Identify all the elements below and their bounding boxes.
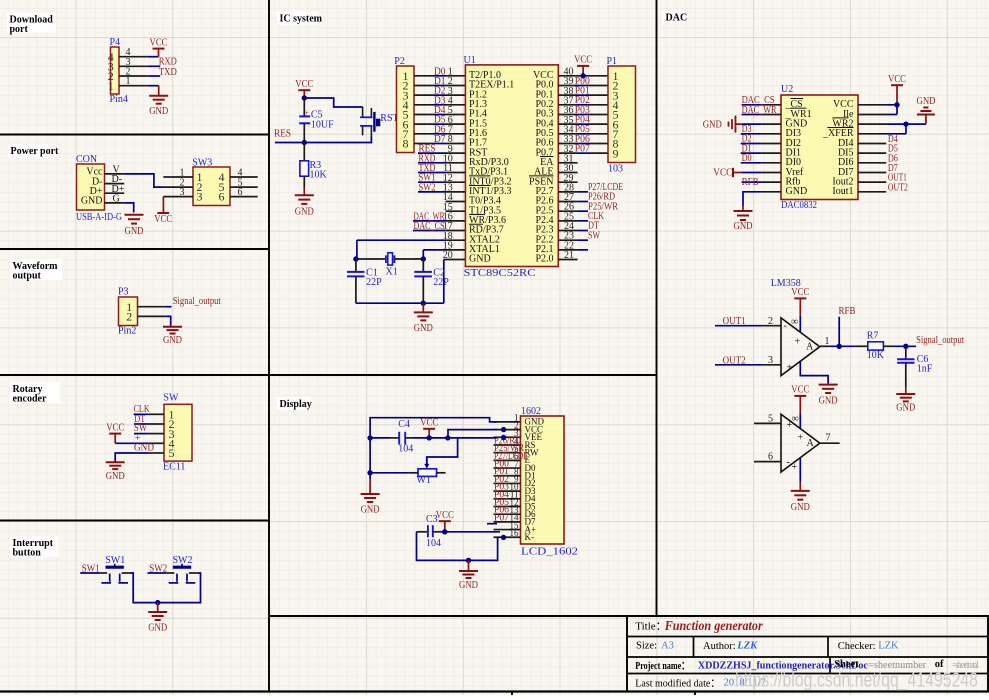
junction pin40 VCC [580,73,585,78]
P4 pin 3 [119,65,148,67]
wire XTAL1 row19 [423,249,445,251]
resistor R3 [303,143,305,161]
svg-text:GND: GND [819,396,838,407]
op-amp U3A [781,318,820,376]
ground download [158,86,160,96]
svg-text:C4: C4 [398,419,410,430]
SW pin 1 CLK [149,413,164,415]
wire lcd pin2 VCC [448,430,497,438]
svg-text:RFB: RFB [839,306,856,317]
junction rail W1 [367,470,372,475]
SW pin 3 SWnet [149,433,164,435]
opamp1 pin2 [762,325,781,327]
connector P1 body [608,66,636,163]
svg-text:GND: GND [163,335,182,346]
ground U2 right (inverted) [925,115,927,125]
svg-text:EC11: EC11 [163,462,185,473]
button SW1 [106,566,124,569]
capacitor C5 [303,98,305,116]
svg-text:GND: GND [361,505,380,516]
svg-text:A: A [806,341,814,352]
mcu U1 body [465,65,558,267]
svg-text:DAC0832: DAC0832 [781,200,817,211]
border tick marks [511,692,513,696]
svg-text:Last modified date：: Last modified date： [635,677,720,689]
svg-text:+: + [787,420,793,431]
svg-text:P07: P07 [494,512,509,523]
svg-text:104: 104 [398,444,413,455]
ground rotary [106,461,125,463]
crystal X1 [385,255,387,263]
svg-text:GND: GND [791,502,810,513]
svg-text:GND: GND [734,221,753,232]
crystal X1 rail [356,258,386,260]
svg-text:SW2: SW2 [419,182,436,193]
section label Power port [8,144,56,158]
section label Display [277,397,310,410]
U1 rows 16,17 DAC wires [413,220,446,222]
svg-text:16: 16 [510,528,520,538]
svg-text:USB-A-ID-G: USB-A-ID-G [76,212,122,223]
ground U2 bottom [742,206,744,211]
svg-text:G: G [113,194,120,205]
wire XTAL2 row18 [357,239,446,241]
U2 pins DI4-DI7 [858,142,886,144]
wire left rail lower [369,438,371,479]
svg-text:X1: X1 [386,267,398,278]
U2 VCC right [858,104,887,106]
connector P2 body [397,66,415,153]
potentiometer W1 [418,469,437,477]
svg-text:TXD: TXD [159,67,177,78]
connector P3 body [119,297,138,326]
op-amp U3B [781,414,820,472]
wire C4 to VEE [414,437,497,439]
junction X1 right [421,256,426,261]
svg-text:Signal_output: Signal_output [173,296,221,307]
wire SW3.3 to VCC below [162,197,164,213]
title block frame [627,616,988,692]
power VCC display [423,428,435,430]
svg-text:VCC: VCC [791,287,809,298]
P3 pin 1 [138,306,166,308]
svg-text:P3: P3 [118,287,129,298]
junction U2 VCC [894,102,899,107]
svg-text:VCC: VCC [154,214,172,225]
U2 pin WR1 wire [742,113,762,115]
svg-text:2: 2 [768,316,773,327]
svg-text:Pin2: Pin2 [118,326,136,337]
junction X1 left [353,256,358,261]
wire SW1 to gnd rail [130,573,158,603]
wire pin20 gnd drop [443,260,445,304]
svg-text:VCC: VCC [106,422,124,433]
junction VCC display [427,435,432,440]
wire pin5 to ground [115,453,148,462]
svg-text:VCC: VCC [436,510,454,521]
svg-text:DAC: DAC [666,13,688,24]
U1 pin 20 GND [444,259,446,261]
SW3 pin 3 [163,196,193,198]
wire P4.4 to VCC [148,56,159,58]
U1 pins 28-23 labelled stubs [558,191,577,193]
SW1 left pin [99,572,107,574]
ground crystal [422,303,424,312]
encoder SW body [164,404,192,461]
section label Waveform output [10,259,62,280]
wire SW stub [134,433,149,435]
wire crystal gnd rail [356,302,444,304]
wire CON.G to ground [124,203,134,213]
svg-text:1: 1 [825,336,830,347]
svg-text:1nF: 1nF [917,363,933,374]
svg-text:SW: SW [163,393,179,404]
svg-text:VCC: VCC [791,385,809,396]
svg-text:U2: U2 [781,84,793,95]
divider power/waveform [0,248,269,250]
svg-text:1602: 1602 [521,406,541,417]
wire RST bottom to RES row [304,135,371,142]
svg-text:10K: 10K [310,169,328,180]
power VCC U1 top [577,65,589,67]
switch SW3 body [193,167,230,206]
capacitor C6 [905,346,907,359]
svg-text:K-: K- [525,532,535,542]
wire C4 row [370,437,390,439]
U1 pins 31,30,29 stubs [558,162,577,164]
wire P3.2 to ground [166,316,171,326]
junction gnd rail [421,301,426,306]
ground display left [369,479,371,494]
opamp2 pin5 [754,422,781,424]
power VCC opamp1 [794,297,806,299]
U2 pin Iout1 [858,191,886,193]
wire output to R7 [829,345,855,347]
svg-text:Display: Display [280,399,312,410]
wire CLK stub [134,413,149,415]
svg-text:5: 5 [169,446,175,460]
svg-text:1: 1 [126,76,131,87]
U1 pin 21 stub [558,259,577,261]
wire SW2 to gnd rail [158,573,201,603]
power VCC power-port (downward) [157,212,169,214]
power VCC opamp2 [794,395,806,397]
svg-text:Function generator: Function generator [664,618,764,633]
SW1 right pin [122,572,130,574]
opamp1 gnd wire [800,361,828,383]
svg-text:GND: GND [149,106,168,117]
svg-text:3: 3 [768,355,773,366]
svg-text:VCC: VCC [888,74,906,85]
svg-text:encoder: encoder [13,394,47,405]
junction lcd pin2 [501,427,506,432]
svg-text:+: + [798,432,804,443]
svg-text:A: A [807,438,815,449]
ground opamp2 [791,490,810,492]
button SW2 [173,566,191,569]
svg-text:∞: ∞ [792,413,799,424]
svg-text:https://blog.csdn.net/qq_41495: https://blog.csdn.net/qq_41495248 [735,669,978,691]
svg-text:W1: W1 [417,475,431,486]
junction C3 VCC [442,529,447,534]
junction backlight gnd [466,558,471,563]
opamp1 pin3 [762,364,781,366]
svg-text:GND: GND [295,206,314,217]
junction WR2/XFER [903,121,908,126]
capacitor C3 [417,531,428,533]
wire CON.V to SW3.2 [124,174,163,187]
svg-text:Power port: Power port [11,146,60,157]
svg-text:-: - [787,457,790,468]
svg-text:∞: ∞ [791,317,798,328]
connector CON body [77,164,105,210]
wire R3 to ground [303,176,305,187]
svg-text:SW: SW [588,230,600,241]
SW2 right pin [189,572,197,574]
opamp2 output pin7 [820,442,840,444]
svg-text:port: port [10,24,29,35]
wire C3 left drop [417,532,498,561]
svg-text:6: 6 [219,190,225,204]
wire SW2 left [148,572,167,574]
divider waveform/rotary and ic/display [0,374,657,376]
svg-text:21: 21 [564,250,574,261]
U2 right overlines [832,117,848,119]
svg-text:22P: 22P [366,277,382,288]
SW3 pin 4 [230,176,258,178]
SW2 left pin [166,572,174,574]
U2 WR2 to gnd [858,123,887,125]
section divider vertical left [268,0,270,692]
svg-text:A3: A3 [661,640,674,651]
connector P4 body [111,47,120,94]
svg-text:10K: 10K [867,350,885,361]
wire U1 pin40 to P1 pin1 [558,75,608,77]
section label Rotary encoder [10,382,60,403]
svg-text:VCC: VCC [295,79,313,90]
wire left rail top [370,418,497,438]
svg-text:104: 104 [426,538,441,549]
section label IC system [277,12,318,25]
ground reset [295,194,314,196]
svg-text:Checker:: Checker: [838,641,876,652]
svg-text:1: 1 [108,79,114,93]
svg-text:GND: GND [106,471,125,482]
wire VCC to pin4 [115,442,148,444]
wiper arrow [424,464,429,469]
junction interrupt gnd [155,600,160,605]
U1 left overlines [469,175,491,177]
SW3 pin 5 [230,186,258,188]
svg-text:GND: GND [917,96,936,107]
svg-text:D0: D0 [742,153,752,164]
wire P3.1 Signal_output stub [166,306,172,308]
svg-text:P07: P07 [575,144,590,155]
lcd pin lines and numbers [494,421,521,423]
P2-U1 data wires D0-D7 [414,75,434,77]
wire DT stub [134,423,149,425]
svg-text:P2.0: P2.0 [535,254,553,265]
section divider vertical right [656,0,658,616]
junction signal output [903,344,908,349]
CON pin D- [105,183,125,185]
svg-text:GND: GND [134,443,154,454]
svg-text:3: 3 [197,190,203,204]
svg-text:GND: GND [703,120,722,131]
svg-text:DAC_CS: DAC_CS [414,221,445,232]
svg-text:Iout1: Iout1 [832,186,853,197]
junction VCC/C5 [302,95,307,100]
U1 rows 9-13 wires [418,152,446,154]
svg-text:GND: GND [786,186,808,197]
divider rotary/interrupt [0,520,269,522]
svg-text:-: - [784,321,787,332]
svg-text:6: 6 [768,452,773,463]
svg-text:LCD_1602: LCD_1602 [521,546,578,557]
ground waveform [163,326,182,328]
svg-text:Author:: Author: [703,641,736,652]
power VCC reset [298,89,310,91]
ground opamp1 [819,384,838,386]
svg-text:5: 5 [768,414,773,425]
svg-text:RFB: RFB [742,177,759,188]
SW3 pin 2 [163,186,193,188]
junction RES/R3 [302,140,307,145]
opamp2 gnd wire [799,458,801,482]
wire rail to W1 [370,472,408,474]
svg-text:+: + [787,362,793,373]
wire SW1 left [80,572,99,574]
ground interrupt [157,603,159,612]
capacitor C4 [390,437,399,439]
svg-text:+: + [304,108,309,117]
svg-text:7: 7 [826,433,831,444]
junction rail C4 [367,435,372,440]
svg-text:8: 8 [403,137,409,151]
U2 pin Iout2 [858,181,886,183]
U2 data pins DI3-DI0 [741,133,762,135]
wire R7 to output node [883,345,894,347]
wire RES row [275,142,304,144]
svg-text:103: 103 [608,163,623,174]
svg-text:LZK: LZK [736,641,758,652]
svg-text:RES: RES [274,128,291,139]
svg-text:VCC: VCC [574,55,592,66]
svg-text:GND: GND [125,226,144,237]
svg-text:STC89C52RC: STC89C52RC [464,268,536,279]
wire VCC to RST button [304,98,362,107]
svg-text:OUT2: OUT2 [888,182,908,193]
U2 left overlines [791,98,804,100]
P4 pin 4 [119,56,148,58]
U2 pin Rfb wire [742,181,762,183]
U2 pin CS wire [742,104,762,106]
U1-P1 port wires P00-P07 [558,84,576,86]
SW pin 5 GND [149,452,164,454]
power VCC backlight [439,520,451,522]
svg-text:+: + [795,336,801,347]
svg-text:output: output [13,271,42,282]
wire lcd pin14 stub blue [487,523,497,525]
wire XFER row [858,133,887,135]
button RST (rotated) [362,107,364,117]
svg-text:10UF: 10UF [311,119,334,130]
CON pin V [105,173,125,175]
CON pin G [105,202,125,204]
section label Download port [7,13,56,33]
svg-text:22P: 22P [433,277,449,288]
wire XTAL2 drop [356,240,358,259]
wire wiper branch [427,438,458,465]
P3 pin 2 [138,315,166,317]
svg-text:Title：: Title： [635,620,666,632]
SW3 pin 1 [163,176,193,178]
CON pin D+ [105,192,125,194]
svg-text:GND: GND [81,196,103,207]
SW pin 2 DT [149,423,164,425]
section label Interrupt button [10,536,58,557]
U1 pins 14,15 stubs [446,201,466,203]
U1 right overlines [540,156,554,158]
svg-text:Signal_output: Signal_output [916,335,964,346]
section label DAC [663,11,684,24]
svg-text:button: button [13,548,42,559]
resistor R7 [855,345,868,347]
svg-text:D7: D7 [434,134,446,145]
junction output RFB [837,344,842,349]
wire P4.2 TXD stub [148,75,161,77]
svg-text:DAC_WR: DAC_WR [742,105,777,116]
svg-text:GND: GND [896,403,915,414]
svg-text:LZK: LZK [878,641,899,652]
wire VCC to Ile [896,105,898,115]
SW pin 4 plus [149,442,164,444]
capacitor C2 [422,259,424,272]
svg-text:+: + [792,462,798,473]
wire C3 to lcd pin15 [445,531,500,533]
U1 pin 22 stub [558,249,577,251]
wire XTAL1 drop [422,250,424,259]
U2 pin GND10 wire [761,191,781,193]
divider above title block [269,615,988,617]
svg-text:2: 2 [126,310,132,324]
lcd body [521,416,565,544]
svg-text:GND: GND [414,323,433,334]
svg-text:R7: R7 [867,331,879,342]
svg-text:VCC: VCC [420,418,438,429]
P4 pin 1 [119,85,148,87]
svg-text:IC system: IC system [280,14,323,25]
opamp2 pin6 [754,461,781,463]
SW3 pin 6 [230,196,258,198]
svg-text:Size:: Size: [636,640,657,651]
junction VEE tee [445,435,450,440]
svg-text:GND: GND [459,580,478,591]
ground power port [125,214,144,216]
wire P4.1 to GND [148,85,159,87]
divider download/power [0,134,269,136]
power VCC rotary [109,433,121,435]
svg-text:VCC: VCC [150,37,168,48]
capacitor C1 [355,259,357,272]
svg-text:GND: GND [469,254,491,265]
dac U2 body [781,95,858,200]
opamp1 output pin1 [820,345,829,347]
svg-text:Project name：: Project name： [635,660,689,672]
ground backlight [468,560,470,571]
svg-text:9: 9 [613,146,619,160]
power VCC download [153,48,165,50]
